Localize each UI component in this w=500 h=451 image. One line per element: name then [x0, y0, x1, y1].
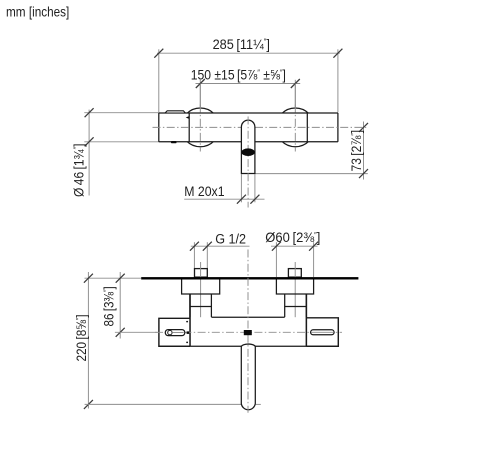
- wall extension line left: [85, 277, 142, 279]
- wall line: [141, 277, 358, 279]
- left handle screw dots: [186, 321, 188, 323]
- body centerline left segment: [153, 126, 242, 128]
- aerator outlet (black ellipse): [241, 148, 254, 156]
- dimension dia 46 line: [88, 110, 90, 196]
- valve centerline left upper: [199, 84, 201, 108]
- dia60 tick left: [272, 242, 281, 251]
- valve centerline right upper: [294, 84, 296, 108]
- body junction line right: [306, 113, 308, 142]
- dimension 150 extension lines: [199, 80, 201, 107]
- left valve circle: [181, 108, 220, 147]
- spout centerline front: [247, 117, 249, 208]
- dimension dia 46 tick top: [85, 108, 94, 117]
- dimension 220 extension line bottom: [85, 403, 242, 405]
- left escutcheon flange dia60: [182, 280, 220, 295]
- svg-text:Ø 46 [1¾″​]: Ø 46 [1¾″​]: [71, 144, 87, 197]
- svg-text:73 [2⅞″​]: 73 [2⅞″​]: [348, 130, 364, 172]
- dimension 220 line: [87, 272, 89, 409]
- right supply nipple G1/2: [288, 269, 301, 278]
- left handle plan: [159, 318, 190, 346]
- dia60 dimension line: [271, 245, 318, 247]
- right valve centerline plan: [294, 262, 296, 323]
- right valve centerline: [294, 105, 296, 152]
- dimension 150 tick right: [291, 79, 300, 88]
- dimension 220 tick bottom: [84, 400, 93, 409]
- temperature button: [165, 111, 185, 113]
- dimension 150 line: [196, 83, 301, 85]
- G1/2 tick right: [203, 242, 212, 251]
- mixer body front view: [159, 113, 338, 142]
- M20x1 extension lines: [240, 174, 242, 202]
- dia60 tick right: [309, 242, 318, 251]
- right valve circle: [276, 108, 315, 147]
- dimension 86 tick top: [116, 274, 125, 283]
- svg-text:Ø60 [2⅜″​]: Ø60 [2⅜″​]: [265, 230, 320, 246]
- left valve centerline: [199, 105, 201, 152]
- body end junction lines over handles: [189, 294, 191, 346]
- plan body centerline: [155, 331, 342, 333]
- right handle plan: [306, 318, 338, 347]
- left connector: [189, 294, 191, 317]
- set screw mark: [171, 141, 177, 143]
- dia60 extension lines: [275, 242, 277, 277]
- dimension 220 tick top: [84, 274, 93, 283]
- dimension 73 extension line bottom: [255, 173, 368, 175]
- dimension 285 tick right: [333, 49, 342, 58]
- M20x1 dimension line: [184, 198, 264, 200]
- right handle grip slot: [311, 330, 335, 335]
- plan centerline extension: [115, 331, 158, 333]
- mixer body plan view: [190, 317, 306, 346]
- dimension 73 line: [363, 122, 365, 180]
- svg-text:220 [8⅝″​]: 220 [8⅝″​]: [73, 314, 89, 361]
- svg-text:285 [11¼″​]: 285 [11¼″​]: [213, 36, 270, 52]
- spout connection square: [244, 330, 252, 335]
- dimension 73 tick bottom: [359, 169, 368, 178]
- dimension 285 extension lines: [158, 49, 160, 112]
- left handle connector square: [187, 331, 190, 334]
- dimension 150 tick left: [196, 79, 205, 88]
- dimension dia 46 tick bottom: [85, 137, 94, 146]
- dimension 86 line: [119, 272, 121, 339]
- temperature marker arrow: [186, 116, 189, 119]
- left supply nipple G1/2: [195, 269, 208, 278]
- svg-text:86 [3⅜″​]: 86 [3⅜″​]: [100, 286, 116, 326]
- G1/2 dimension line: [191, 245, 250, 247]
- left valve centerline plan: [200, 262, 202, 323]
- svg-text:M 20x1: M 20x1: [184, 183, 224, 199]
- M20x1 tick left: [237, 195, 246, 204]
- right escutcheon flange dia60: [276, 280, 313, 295]
- left handle grip detail: [165, 330, 185, 336]
- G1/2 extension lines: [193, 242, 195, 268]
- G1/2 tick left: [190, 242, 199, 251]
- dimension 285 line: [157, 52, 340, 54]
- right connector: [284, 294, 286, 317]
- svg-text:G 1/2: G 1/2: [215, 231, 246, 247]
- svg-text:150 ±15 [5⅞″​ ±⅝″​]: 150 ±15 [5⅞″​ ±⅝″​]: [191, 67, 286, 83]
- bottom edge line: [159, 345, 241, 347]
- body centerline right segment: [255, 126, 368, 128]
- dimension dia 46 extension lines: [84, 112, 159, 114]
- dimension 86 tick bottom: [116, 328, 125, 337]
- spout axis centerline: [247, 250, 249, 413]
- M20x1 tick right: [250, 195, 259, 204]
- svg-text:mm [inches]: mm [inches]: [6, 3, 69, 19]
- body junction line left: [188, 113, 190, 142]
- dimension 285 tick left: [154, 49, 163, 58]
- spout front view: [241, 120, 255, 173]
- dimension 73 tick top: [359, 123, 368, 132]
- spout plan view: [241, 344, 255, 410]
